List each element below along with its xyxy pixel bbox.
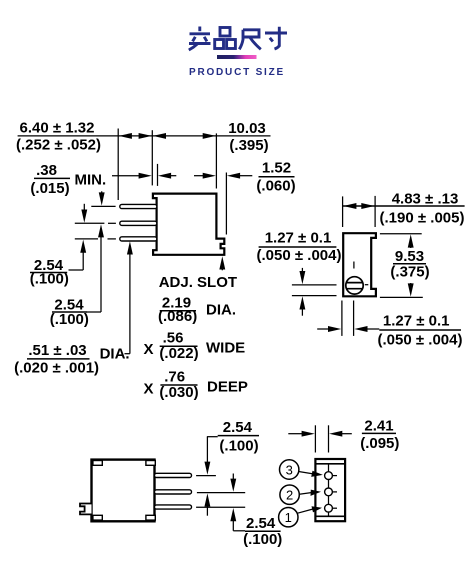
svg-text:WIDE: WIDE xyxy=(206,340,245,357)
side slot tab xyxy=(80,504,92,515)
pin hole 1 xyxy=(325,504,333,512)
header gradient bar xyxy=(217,55,257,59)
svg-text:(.100): (.100) xyxy=(30,271,69,288)
svg-text:2.54: 2.54 xyxy=(246,515,276,532)
terminal circle 1 xyxy=(279,508,298,527)
svg-text:.51 ± .03: .51 ± .03 xyxy=(28,342,86,359)
dim 2.54 (pins1-2) arrows xyxy=(87,191,102,312)
svg-text:DEEP: DEEP xyxy=(207,379,248,396)
adjustment screw xyxy=(346,277,363,294)
svg-text:10.03: 10.03 xyxy=(228,120,266,137)
svg-text:(.375): (.375) xyxy=(390,264,429,281)
body end view xyxy=(343,233,376,296)
svg-text:PRODUCT SIZE: PRODUCT SIZE xyxy=(189,67,285,78)
svg-text:(.022): (.022) xyxy=(159,345,198,362)
pin 3 (bottom view) xyxy=(155,505,192,509)
svg-text:(.086): (.086) xyxy=(158,308,197,325)
dim 9.53 (right side) xyxy=(380,234,423,298)
pin 2 (side view) xyxy=(120,221,157,225)
svg-text:(.395): (.395) xyxy=(229,137,268,154)
svg-text:6.40 ± 1.32: 6.40 ± 1.32 xyxy=(20,120,95,137)
svg-text:(.190 ± .005): (.190 ± .005) xyxy=(380,209,465,226)
svg-text:MIN.: MIN. xyxy=(75,171,107,188)
extension line v1 xyxy=(117,129,119,201)
dim 2.54 top (bottom view pins 1-2) xyxy=(207,437,218,516)
extension line v3 xyxy=(215,133,217,188)
svg-text:1.27 ± 0.1: 1.27 ± 0.1 xyxy=(383,313,450,330)
dim 2.54 (pins2-3) arrows xyxy=(69,204,85,270)
svg-text:X: X xyxy=(144,380,154,397)
dim 2.54 bottom (bottom view pins 2-3) xyxy=(233,474,245,531)
svg-text:(.095): (.095) xyxy=(360,435,399,452)
header title 产品尺寸 (drawn strokes) xyxy=(189,27,287,51)
svg-text:(.060): (.060) xyxy=(256,178,295,195)
svg-text:3: 3 xyxy=(286,463,293,478)
ADJ. SLOT leader arrow xyxy=(221,263,223,270)
svg-text:(.020 ± .001): (.020 ± .001) xyxy=(14,360,99,377)
svg-text:4.83 ± .13: 4.83 ± .13 xyxy=(392,190,459,207)
pin leader lines (left) xyxy=(75,206,116,239)
svg-text:(.100): (.100) xyxy=(243,531,282,548)
svg-text:2: 2 xyxy=(286,488,293,503)
char 产 xyxy=(189,27,211,51)
svg-text:(.050 ± .004): (.050 ± .004) xyxy=(257,247,342,264)
dim 1.27 (bottom of end view) xyxy=(317,301,379,336)
svg-text:(.100): (.100) xyxy=(219,437,258,454)
dim 4.83 line xyxy=(343,205,465,207)
svg-text:(.015): (.015) xyxy=(30,180,69,197)
terminal circle 3 xyxy=(280,460,299,479)
screw centerline ticks xyxy=(353,262,355,269)
body bottom view xyxy=(92,460,155,522)
svg-text:(.050 ± .004): (.050 ± .004) xyxy=(378,331,463,348)
pin hole 3 xyxy=(325,472,333,480)
leader for .51 DIA (points at pin3) xyxy=(125,252,130,354)
svg-text:DIA.: DIA. xyxy=(206,302,236,319)
terminal circle 2 xyxy=(280,485,299,504)
svg-text:ADJ. SLOT: ADJ. SLOT xyxy=(159,274,237,291)
svg-text:1.27 ± 0.1: 1.27 ± 0.1 xyxy=(265,229,332,246)
svg-text:X: X xyxy=(144,341,154,358)
arrowheads row2 xyxy=(139,173,152,179)
ext lines 4.83 xyxy=(342,196,344,227)
svg-text:(.100): (.100) xyxy=(50,311,89,328)
pin 1 (side view) xyxy=(120,204,157,208)
dim 2.41 xyxy=(288,425,352,452)
char 寸 xyxy=(265,27,287,49)
dimension line row1 (6.40 / 10.03) xyxy=(18,135,271,137)
extension line vb xyxy=(157,164,159,186)
svg-text:1: 1 xyxy=(285,510,292,525)
svg-text:2.54: 2.54 xyxy=(223,419,253,436)
pin 3 (side view) xyxy=(120,237,157,241)
arrowheads row1 xyxy=(119,133,240,179)
char 品 xyxy=(215,28,236,49)
body schematic front view xyxy=(315,459,345,521)
corner pads xyxy=(93,461,102,466)
svg-text:1.52: 1.52 xyxy=(262,159,291,176)
pin hole 2 xyxy=(325,488,333,496)
dimension row2 segments xyxy=(112,175,141,177)
svg-text:(.252 ± .052): (.252 ± .052) xyxy=(16,136,101,153)
char 尺 xyxy=(239,30,260,50)
extension line v4 xyxy=(225,173,227,235)
body side view xyxy=(153,194,224,255)
svg-text:.38: .38 xyxy=(36,162,57,179)
pin 2 (bottom view) xyxy=(155,490,192,494)
pin leader lines (right of bottom view) xyxy=(196,476,245,508)
pin 1 (bottom view) xyxy=(155,473,192,477)
svg-text:(.030): (.030) xyxy=(159,384,198,401)
svg-text:DIA.: DIA. xyxy=(100,346,130,363)
extension line v2 xyxy=(151,130,153,185)
svg-text:2.41: 2.41 xyxy=(364,417,393,434)
